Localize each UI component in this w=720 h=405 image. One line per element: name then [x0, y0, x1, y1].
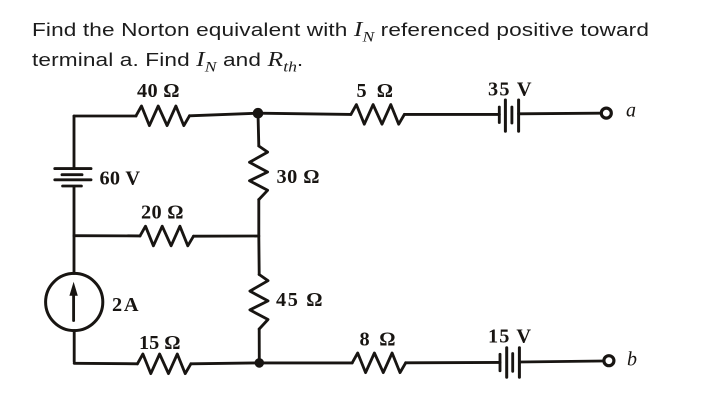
svg-text:60 V: 60 V — [100, 168, 141, 190]
svg-text:2 A: 2 A — [112, 294, 139, 316]
svg-text:35 V: 35 V — [488, 79, 532, 101]
svg-text:30 Ω: 30 Ω — [277, 166, 320, 188]
svg-text:5 Ω: 5 Ω — [357, 80, 394, 102]
svg-text:15 V: 15 V — [488, 326, 531, 348]
svg-text:20 Ω: 20 Ω — [141, 202, 184, 224]
svg-text:15 Ω: 15 Ω — [139, 332, 181, 354]
svg-text:a: a — [626, 100, 636, 122]
svg-text:b: b — [627, 349, 637, 371]
svg-text:45 Ω: 45 Ω — [276, 289, 323, 311]
svg-text:8 Ω: 8 Ω — [360, 329, 396, 351]
svg-text:40 Ω: 40 Ω — [137, 80, 180, 102]
